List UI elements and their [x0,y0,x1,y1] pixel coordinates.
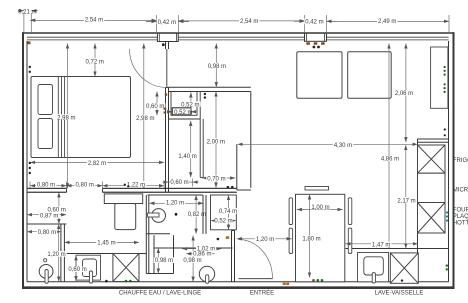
WC room [146,195,206,274]
sockets below living block [312,279,315,282]
svg-text:1,20 m: 1,20 m [47,252,65,258]
dim 4,30 [238,143,418,145]
svg-text:0,86 m: 0,86 m [193,252,211,258]
svg-text:0,21 m: 0,21 m [18,9,36,15]
svg-text:0,74 m: 0,74 m [219,209,237,215]
dim 0,87 [27,214,66,216]
sockets laundry bottom [105,280,108,283]
interior wall overdraw (above text bgs) [27,188,237,233]
dim 0,52 horizontal arrows [168,111,173,113]
sink 1 pedestal [39,265,53,279]
pillar 1 [157,33,178,42]
toilet [152,209,166,223]
svg-text:0,60 m: 0,60 m [146,104,164,110]
entry door leaf + arc [239,278,273,280]
dim 0,60 left column [58,192,60,224]
svg-text:0,98 m: 0,98 m [155,258,173,264]
svg-text:2,17 m: 2,17 m [397,198,415,204]
interior horizontal wall [27,187,67,189]
dim 0,70 [202,177,235,179]
pillar 2 [305,33,327,41]
svg-text:FOUR: FOUR [453,207,468,213]
svg-text:0,80 m: 0,80 m [38,230,56,236]
svg-text:1,47 m: 1,47 m [372,243,390,249]
svg-text:2,98 m: 2,98 m [136,116,154,122]
svg-text:1,80 m: 1,80 m [302,236,320,242]
svg-text:0,42 m: 0,42 m [305,20,323,26]
living block [296,194,345,281]
dim 1,20 wc [149,202,203,204]
dim 0,72 [94,44,96,77]
wall right outer [453,32,455,288]
dim 0,80 left [27,231,61,233]
svg-text:4,86 m: 4,86 m [381,157,399,163]
sockets kitchen bottom right [446,264,448,266]
sockets closet area [204,93,206,95]
top row [23,13,25,32]
dim 1,80 block [309,194,311,277]
wall left outer [22,32,24,288]
hall divider line [236,144,238,190]
svg-text:2,54 m: 2,54 m [85,17,103,23]
fridge X-box [418,145,446,173]
dim 2,54 top-left [30,19,156,21]
pillow 1 [38,85,53,115]
dim 1,40 [190,121,192,178]
dim 2,49 top-right [327,20,450,22]
bedroom door leaf [166,49,168,88]
wall bottom outer [22,286,455,289]
laundry top line [64,253,146,255]
side panels [289,198,293,225]
socket under pillar 1 [162,43,165,46]
dim 2,00 [215,92,217,188]
dim 2,06 [405,44,407,143]
dim 0,42 pillar2 arrows [294,20,305,22]
dim 0,52 closet2 arrows [211,220,216,222]
dim 2,54 top-mid [179,20,305,22]
hall left wall [232,231,235,282]
fridge top cabinet [431,47,448,108]
dim 2,17 [405,145,407,249]
svg-text:1,20 m: 1,20 m [166,201,184,207]
svg-text:0,98 m: 0,98 m [183,258,201,264]
svg-text:HOTTE: HOTTE [453,221,468,227]
dim row 0,80 0,80 1,22 [30,185,67,187]
svg-text:0,80 m: 0,80 m [37,182,55,188]
svg-text:FRIGO: FRIGO [453,158,468,164]
svg-text:2,00 m: 2,00 m [207,139,225,145]
svg-text:1,00 m: 1,00 m [311,205,329,211]
svg-text:0,70 m: 0,70 m [207,177,225,183]
dim 1,02 [182,248,222,250]
dishwasher [390,253,418,283]
switch top-left corner [28,41,31,44]
svg-text:0,72 m: 0,72 m [86,59,104,65]
closet 1 [169,92,204,178]
bathroom block top [169,86,251,88]
pillow 2 [38,119,53,149]
bathroom block right [250,92,252,188]
svg-text:1,40 m: 1,40 m [178,154,196,160]
living squares [297,52,342,98]
svg-text:2,54 m: 2,54 m [240,19,258,25]
sink 2 pedestal [199,266,214,281]
svg-text:2,49 m: 2,49 m [378,19,396,25]
svg-text:1,45 m: 1,45 m [97,241,115,247]
svg-text:ENTRÉE: ENTRÉE [250,290,274,297]
dim 0,42 pillar1 arrows [146,21,157,23]
svg-text:1,22 m: 1,22 m [127,182,145,188]
svg-text:0,52 m: 0,52 m [214,219,232,225]
svg-text:0,60 m: 0,60 m [170,180,188,186]
dim 0,86 [186,253,215,255]
sockets corridor end [227,186,230,189]
svg-text:4,30 m: 4,30 m [334,143,352,149]
svg-text:0,42 m: 0,42 m [158,20,176,26]
bed [31,77,131,158]
dim 1,45 [64,241,139,243]
wall bottom inner [27,281,449,283]
svg-text:LAVE-VAISSELLE: LAVE-VAISSELLE [375,291,424,297]
oven X-box [418,203,446,234]
dim 0,21 arrows [18,10,24,12]
wall left inner [26,41,28,282]
kitchen counters [346,139,449,282]
dim 0,60 vanity [75,255,77,281]
svg-text:1,20 m: 1,20 m [256,237,274,243]
svg-text:0,80 m: 0,80 m [76,182,94,188]
hall top line [237,189,251,191]
dim 1,20 left [58,224,60,282]
closet 2 [211,195,237,230]
micro cabinet [418,173,446,202]
svg-text:2,98 m: 2,98 m [57,115,75,121]
dim 0,74 closet2 [228,195,230,230]
washing machine [113,254,139,282]
dim 2,98 bedroom [67,44,69,189]
dim 0,98 shower [157,248,159,274]
vanity [76,255,101,280]
water heater [104,194,142,204]
entry threshold markers [283,283,286,285]
bedroom right wall [165,88,167,193]
sockets oven column [446,211,448,213]
wall right inner [448,41,450,282]
sockets tall cabinet [444,66,446,68]
dim 2,82 [30,161,164,163]
sockets right wall [444,128,446,130]
window band top [27,37,449,40]
svg-text:CHAUFFE EAU / LAVE-LINGE: CHAUFFE EAU / LAVE-LINGE [119,291,201,297]
shower enclosure [146,235,232,273]
dim 4,86 [388,44,390,249]
kitchen sink cabinet [358,253,389,282]
dim 0,60 closet-left [156,92,158,116]
svg-text:2,06 m: 2,06 m [395,91,413,97]
svg-text:MICRO: MICRO [453,188,468,194]
dim 0,52 vertical [190,92,192,107]
dim 0,98 top-mid [215,44,217,88]
dim 0,98 basin [192,236,194,282]
bedroom door arc [130,49,168,88]
socket + switch hall [217,238,220,241]
sockets under pillar 2 [306,42,310,44]
dim 1,47 [346,243,419,245]
dim 2,98 corridor [143,44,145,189]
svg-text:0,60 m: 0,60 m [68,267,86,273]
dim 1,00 block [297,209,343,211]
svg-text:0,98 m: 0,98 m [208,64,226,70]
dim 1,20 hall [237,238,292,240]
svg-text:0,87 m: 0,87 m [40,213,58,219]
svg-text:2,82 m: 2,82 m [88,161,106,167]
corner room bottom-left [27,224,66,282]
electrical points bedroom left wall [29,66,31,68]
dim 0,82 [195,195,197,234]
socket dishwasher [401,279,403,281]
dim 0,60 corridor [169,181,193,183]
svg-text:PLAQUE: PLAQUE [453,214,468,220]
wall top outer [22,32,455,34]
closet shelf outlines on top [172,108,191,115]
